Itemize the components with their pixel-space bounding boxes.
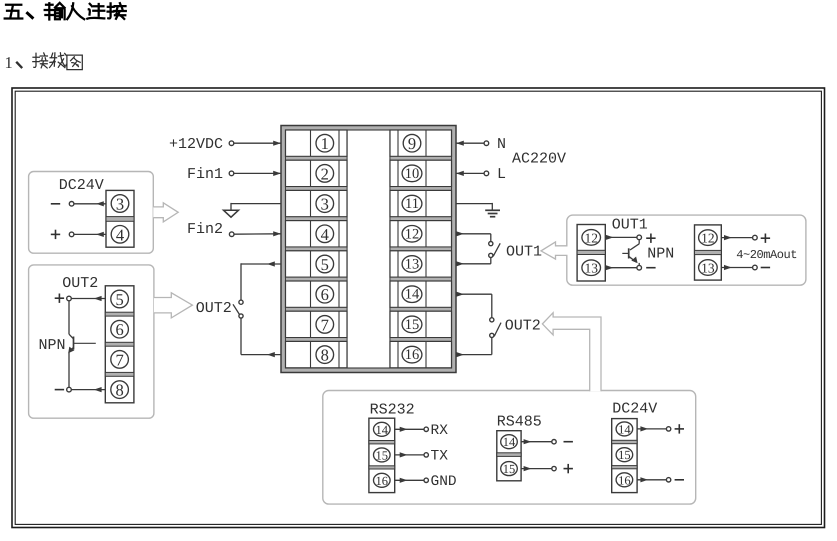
wire DC24V pin 14 to plus xyxy=(637,426,666,431)
separator band left column row 1/2 xyxy=(286,156,348,160)
separator band right column row 14/15 xyxy=(390,307,452,311)
svg-text:13: 13 xyxy=(701,261,715,276)
svg-text:8: 8 xyxy=(115,381,123,400)
svg-text:5: 5 xyxy=(321,255,329,274)
terminal strip 5-8 (OUT2 box) xyxy=(105,286,134,403)
svg-text:2: 2 xyxy=(321,164,329,183)
separator band right column row 10/11 xyxy=(390,187,452,191)
svg-text:GND: GND xyxy=(431,474,457,490)
pin 15 (RS485) xyxy=(501,462,518,477)
subsection label 1、接线图 xyxy=(5,53,83,72)
wire RS485 pin 14 to A minus xyxy=(521,439,552,444)
svg-text:16: 16 xyxy=(618,473,631,487)
separator band right column row 11/12 xyxy=(390,217,452,221)
wire RS485 pin 15 to B plus xyxy=(521,466,552,471)
svg-text:DC24V: DC24V xyxy=(59,177,104,194)
label OUT1 (box title) xyxy=(612,217,648,234)
terminal strip 12-13 (OUT1 NPN group) xyxy=(577,225,605,282)
label OUT1 (net) xyxy=(506,244,542,261)
pin 13 (OUT1 NPN group) xyxy=(582,260,601,276)
terminal block body xyxy=(281,126,456,373)
svg-text:4: 4 xyxy=(321,225,329,244)
node RS485 minus terminal xyxy=(552,440,556,444)
label minus (RS485) xyxy=(564,441,573,443)
label OUT2 (left net) xyxy=(196,300,232,317)
svg-text:NPN: NPN xyxy=(39,337,66,354)
svg-text:OUT2: OUT2 xyxy=(505,318,541,335)
wire DC24V pin 16 to minus xyxy=(637,477,666,482)
label RX xyxy=(431,423,449,439)
wire RS232 pin to TX xyxy=(395,452,424,457)
label RS232 xyxy=(370,402,415,419)
separator band right column row 13/14 xyxy=(390,277,452,281)
wire terminal 3 to signal ground xyxy=(231,203,281,210)
separator band left column row 6/7 xyxy=(286,307,348,311)
svg-text:4~20mAout: 4~20mAout xyxy=(736,248,797,262)
svg-text:L: L xyxy=(497,166,506,183)
node TX terminal xyxy=(424,453,428,457)
wire DC24V minus to pin 3 xyxy=(74,201,106,206)
terminal 9 xyxy=(390,130,452,156)
svg-text:7: 7 xyxy=(321,315,329,334)
separator band left column row 7/8 xyxy=(286,338,348,342)
svg-text:12: 12 xyxy=(405,226,420,242)
pin 8 (OUT2 box) xyxy=(111,381,129,400)
pin 12 (OUT1 NPN group) xyxy=(582,230,601,246)
label DC24V xyxy=(59,177,104,194)
svg-text:Fin2: Fin2 xyxy=(187,221,223,238)
label plus (4-20mA) xyxy=(761,234,770,243)
pin 15 (DC24V bottom) xyxy=(616,448,633,463)
node 4-20mA minus terminal xyxy=(753,265,758,270)
wire OUT1 contact to terminal 13 xyxy=(456,258,491,267)
svg-text:11: 11 xyxy=(405,196,419,212)
label TX xyxy=(431,449,449,465)
label plus (DC24V) xyxy=(51,230,60,239)
label Fin2 xyxy=(187,221,223,238)
svg-text:13: 13 xyxy=(584,261,598,276)
label plus (DC24V bottom) xyxy=(675,424,684,433)
svg-text:14: 14 xyxy=(618,422,631,436)
terminal 7 xyxy=(286,311,348,337)
terminal 11 xyxy=(390,190,452,216)
pin 15 (RS232) xyxy=(374,448,391,463)
node RS485 plus terminal xyxy=(552,466,556,470)
terminal 12 xyxy=(390,221,452,247)
pin 3 (DC24V box) xyxy=(111,195,129,214)
label NPN (left) xyxy=(39,337,66,354)
label plus (OUT2 box) xyxy=(55,294,64,303)
terminal 8 xyxy=(286,341,348,367)
pin 16 (DC24V bottom) xyxy=(616,473,633,488)
OUT2 relay contact (right) xyxy=(490,318,501,338)
label OUT2 (net) xyxy=(505,318,541,335)
signal ground symbol (open triangle) xyxy=(224,210,239,217)
communication box (bottom) xyxy=(323,391,696,505)
svg-text:14: 14 xyxy=(405,287,420,303)
svg-text:14: 14 xyxy=(503,435,516,449)
DC24V source box (left) xyxy=(29,172,154,254)
label DC24V (bottom) xyxy=(612,401,657,418)
node 4-20mA plus terminal xyxy=(753,235,758,240)
terminal strip 14-16 (DC24V bottom) xyxy=(612,419,637,493)
svg-text:15: 15 xyxy=(618,448,631,462)
separator band right column row 12/13 xyxy=(390,247,452,251)
label Fin1 xyxy=(187,166,223,183)
separator band left column row 4/5 xyxy=(286,247,348,251)
terminal 4 xyxy=(286,221,348,247)
wire pin 12 to OUT1 plus xyxy=(605,235,637,240)
svg-text:TX: TX xyxy=(431,449,449,465)
label N xyxy=(497,136,506,153)
terminal 1 xyxy=(286,130,348,156)
wire pin 13 to OUT1 minus xyxy=(605,265,637,270)
terminal strip 12-13 (4-20mA group) xyxy=(695,225,722,280)
wire RS232 pin to RX xyxy=(395,427,424,432)
label NPN (right) xyxy=(647,246,674,263)
earth ground symbol xyxy=(485,210,500,216)
label minus (DC24V bottom) xyxy=(675,479,684,481)
label minus (OUT2 box) xyxy=(55,389,64,391)
block arrow DC24V box to Fin wiring xyxy=(153,203,178,222)
OUT1 relay contact xyxy=(489,242,501,258)
svg-text:12: 12 xyxy=(584,230,598,245)
svg-text:N: N xyxy=(497,136,506,153)
node RX terminal xyxy=(424,427,428,431)
terminal 2 xyxy=(286,160,348,186)
svg-text:15: 15 xyxy=(503,462,516,476)
wire OUT2 contact to terminal 16 xyxy=(456,338,492,358)
terminal strip 14-16 (RS232) xyxy=(369,418,395,492)
label AC220V xyxy=(512,151,566,168)
node +12VDC terminal xyxy=(229,141,234,146)
pin 7 (OUT2 box) xyxy=(111,350,129,369)
wire terminal 14 to OUT2 contact (right) xyxy=(456,292,492,318)
svg-text:OUT1: OUT1 xyxy=(506,244,542,261)
svg-text:16: 16 xyxy=(376,474,389,488)
node OUT1 plus terminal xyxy=(637,235,642,240)
label 4~20mAout xyxy=(736,248,797,262)
label RS485 xyxy=(497,413,542,430)
label GND xyxy=(431,474,457,490)
svg-text:7: 7 xyxy=(115,350,123,369)
pin 13 (4-20mA group) xyxy=(699,260,718,276)
svg-text:RS232: RS232 xyxy=(370,402,415,419)
terminal 10 xyxy=(390,160,452,186)
svg-text:3: 3 xyxy=(321,195,329,214)
node N terminal xyxy=(484,141,489,146)
wire OUT2 contact to terminal 8 xyxy=(241,318,281,357)
svg-text:OUT1: OUT1 xyxy=(612,217,648,234)
title heading 五、输入连接 xyxy=(5,3,126,20)
wire pin 13 to 4-20mA minus xyxy=(721,265,752,270)
svg-text:AC220V: AC220V xyxy=(512,151,566,168)
separator band left column row 5/6 xyxy=(286,277,348,281)
separator band right column row 9/10 xyxy=(390,156,452,160)
svg-text:+12VDC: +12VDC xyxy=(169,136,223,153)
wire +12VDC to terminal 1 xyxy=(234,141,281,146)
label plus (RS485) xyxy=(564,464,573,473)
wire RS232 pin to GND xyxy=(395,478,424,483)
terminal 13 xyxy=(390,251,452,277)
OUT1 output box (right) xyxy=(567,215,806,285)
svg-text:6: 6 xyxy=(115,320,123,339)
terminal 3 xyxy=(286,190,348,216)
svg-text:16: 16 xyxy=(405,347,420,363)
wire terminal 12 to OUT1 contact xyxy=(456,231,491,241)
node GND terminal xyxy=(424,478,428,482)
svg-text:NPN: NPN xyxy=(647,246,674,263)
wire terminal 9 to N xyxy=(456,141,484,146)
svg-text:1: 1 xyxy=(5,53,13,72)
terminal strip 3-4 (DC24V box) xyxy=(106,190,134,247)
OUT2 relay contact (left) xyxy=(233,300,243,318)
terminal 16 xyxy=(390,341,452,367)
pin 16 (RS232) xyxy=(374,473,391,488)
svg-text:3: 3 xyxy=(116,195,124,214)
svg-text:Fin1: Fin1 xyxy=(187,166,223,183)
svg-text:RS485: RS485 xyxy=(497,413,542,430)
pin 14 (RS485) xyxy=(501,435,518,450)
node Fin1 terminal xyxy=(229,171,234,176)
label OUT2 (box title) xyxy=(62,275,98,292)
pin 14 (DC24V bottom) xyxy=(616,422,633,437)
pin 12 (4-20mA group) xyxy=(699,230,718,246)
pin 14 (RS232) xyxy=(374,422,391,437)
svg-text:9: 9 xyxy=(408,134,416,153)
wire terminal 11 to earth ground xyxy=(456,203,492,210)
label minus (OUT1) xyxy=(646,267,655,269)
label +12VDC xyxy=(169,136,223,153)
wire Fin2 to terminal 4 xyxy=(234,231,281,236)
transistor Q1 NPN (OUT2 box) xyxy=(68,301,96,388)
wire Fin1 to terminal 2 xyxy=(234,171,281,176)
terminal 5 xyxy=(286,251,348,277)
svg-text:15: 15 xyxy=(376,448,389,462)
block arrow OUT2 box to OUT2 contact xyxy=(154,293,193,318)
svg-text:14: 14 xyxy=(376,423,389,437)
node DC24V bottom minus terminal xyxy=(666,478,670,482)
block arrow pipe OUT2 to bottom box xyxy=(542,313,601,392)
transistor Q2 NPN (OUT1 box) xyxy=(622,240,639,266)
svg-text:15: 15 xyxy=(405,317,420,333)
node L terminal xyxy=(484,171,489,176)
wire terminal 5 to OUT2 contact xyxy=(241,261,281,300)
OUT2 output box (left) xyxy=(29,265,154,418)
node OUT2 emitter terminal xyxy=(67,387,72,392)
diagram outer frame xyxy=(12,88,825,528)
wire terminal 10 to L xyxy=(456,171,484,176)
wire pin 12 to 4-20mA plus xyxy=(721,235,752,240)
svg-text:13: 13 xyxy=(405,257,420,273)
svg-text:OUT2: OUT2 xyxy=(196,300,232,317)
block arrow OUT1 box to OUT1 contact xyxy=(541,242,568,259)
node DC24V bottom plus terminal xyxy=(666,427,670,431)
node OUT2 collector terminal xyxy=(67,296,72,301)
label L xyxy=(497,166,506,183)
wire OUT2 plus to pin 5 xyxy=(71,296,105,301)
svg-text:10: 10 xyxy=(405,166,420,182)
terminal 15 xyxy=(390,311,452,337)
label plus (OUT1) xyxy=(646,234,655,243)
separator band left column row 2/3 xyxy=(286,187,348,191)
node DC24V plus terminal xyxy=(69,232,74,237)
wire OUT2 minus to pin 8 xyxy=(71,387,105,392)
wire DC24V plus to pin 4 xyxy=(74,232,106,237)
terminal 6 xyxy=(286,281,348,307)
svg-text:12: 12 xyxy=(701,231,715,246)
svg-text:OUT2: OUT2 xyxy=(62,275,98,292)
svg-text:8: 8 xyxy=(321,346,329,365)
pin 4 (DC24V box) xyxy=(111,225,129,244)
label minus (DC24V) xyxy=(51,203,60,205)
terminal 14 xyxy=(390,281,452,307)
terminal strip 14-15 (RS485) xyxy=(497,431,521,481)
svg-text:DC24V: DC24V xyxy=(612,401,657,418)
separator band right column row 15/16 xyxy=(390,338,452,342)
node OUT1 minus terminal xyxy=(637,265,642,270)
node DC24V minus terminal xyxy=(69,202,74,207)
svg-text:1: 1 xyxy=(321,134,329,153)
separator band left column row 3/4 xyxy=(286,217,348,221)
svg-text:4: 4 xyxy=(116,225,124,244)
svg-text:RX: RX xyxy=(431,423,449,439)
label minus (4-20mA) xyxy=(761,267,770,269)
node Fin2 terminal xyxy=(229,232,234,237)
pin 5 (OUT2 box) xyxy=(111,290,129,309)
svg-text:6: 6 xyxy=(321,285,329,304)
pin 6 (OUT2 box) xyxy=(111,320,129,339)
svg-text:5: 5 xyxy=(115,290,123,309)
